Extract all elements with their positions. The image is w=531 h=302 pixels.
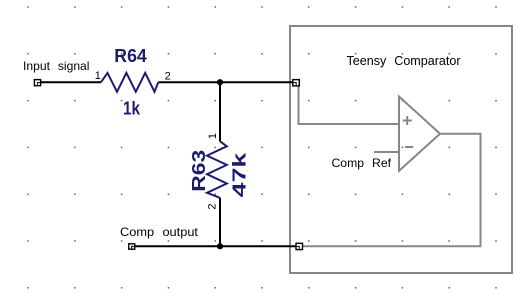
svg-text:2: 2 (207, 203, 219, 209)
svg-text:1k: 1k (123, 98, 141, 118)
svg-text:R64: R64 (114, 46, 147, 66)
svg-text:Teensy Comparator: Teensy Comparator (347, 54, 461, 68)
svg-text:47k: 47k (229, 151, 249, 197)
svg-text:R63: R63 (189, 150, 209, 192)
svg-text:1: 1 (95, 70, 101, 82)
svg-text:1: 1 (207, 133, 219, 139)
svg-text:Input signal: Input signal (23, 59, 90, 73)
svg-text:Comp output: Comp output (120, 225, 199, 239)
svg-text:Comp Ref: Comp Ref (332, 156, 392, 170)
svg-text:2: 2 (165, 71, 171, 83)
